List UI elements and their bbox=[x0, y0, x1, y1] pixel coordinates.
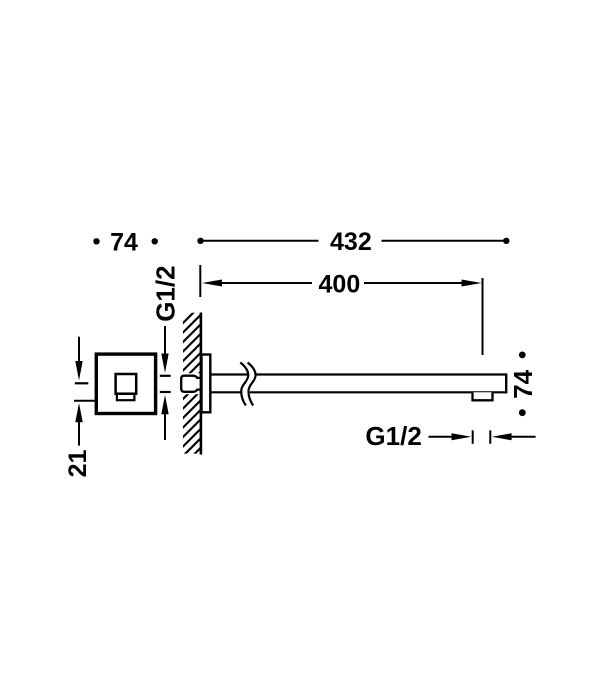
svg-text:G1/2: G1/2 bbox=[150, 265, 180, 321]
dimension 74 (flange width, top left) bbox=[93, 228, 158, 256]
svg-text:432: 432 bbox=[330, 228, 372, 256]
svg-text:G1/2: G1/2 bbox=[365, 421, 421, 451]
pipe break symbol bbox=[240, 363, 255, 406]
svg-text:74: 74 bbox=[110, 228, 138, 256]
spout cross-section front view bbox=[117, 394, 134, 400]
wall face line bbox=[200, 313, 203, 455]
svg-text:74: 74 bbox=[508, 369, 538, 398]
dimension G1/2 (inlet thread, left, rotated) bbox=[150, 265, 180, 440]
wall section hatch bbox=[174, 300, 206, 475]
dimension G1/2 (outlet thread, bottom) bbox=[365, 421, 535, 451]
dimension 432 (overall length, top) bbox=[197, 228, 509, 256]
outlet nozzle (bottom of arm end) bbox=[473, 392, 493, 400]
svg-text:21: 21 bbox=[64, 450, 92, 478]
dimension 400 (projection length) bbox=[200, 265, 482, 355]
dimension 74 (flange height, right, rotated) bbox=[508, 352, 538, 417]
dimension 21 (spout section height, left, rotated) bbox=[64, 337, 97, 478]
wall flange side view bbox=[202, 355, 211, 413]
threaded inlet connector through wall bbox=[179, 373, 201, 394]
svg-text:400: 400 bbox=[319, 271, 361, 299]
wall plate front view (square flange) bbox=[96, 354, 155, 413]
shower arm tube bbox=[210, 373, 507, 393]
